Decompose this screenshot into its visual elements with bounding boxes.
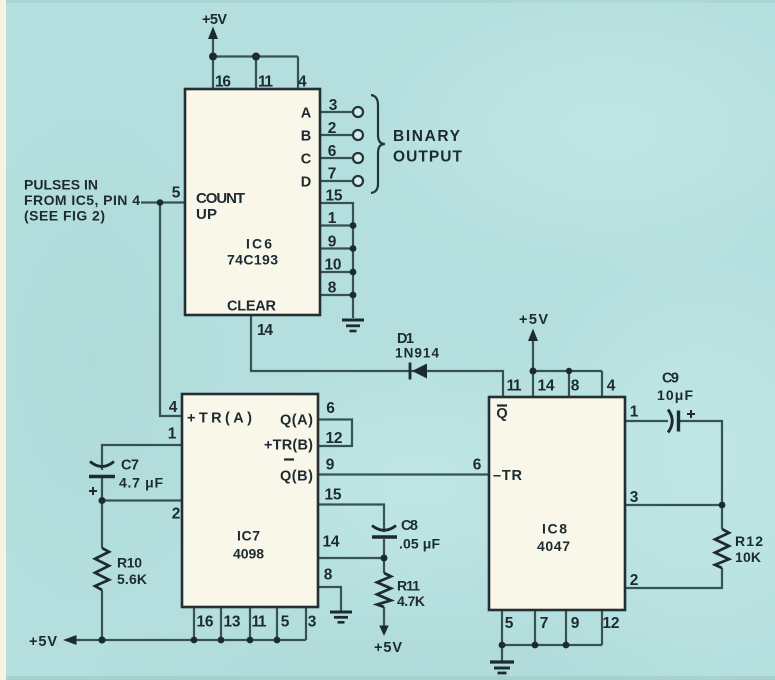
svg-text:C: C (301, 152, 312, 168)
svg-text:14: 14 (257, 322, 273, 339)
svg-text:3: 3 (630, 489, 639, 506)
svg-text:5: 5 (281, 614, 290, 631)
svg-text:16: 16 (215, 74, 231, 91)
junction dot R10 bottom rail (98, 636, 105, 643)
power arrow +5V top (208, 27, 218, 40)
junction dot IC8 pin8 top (566, 368, 572, 374)
power arrow +5V above IC8 (528, 329, 538, 342)
svg-text:1: 1 (328, 210, 337, 227)
svg-text:COUNT: COUNT (196, 190, 245, 207)
wire IC6 pin A to output circle (320, 111, 352, 113)
svg-text:8: 8 (571, 378, 580, 395)
svg-text:1: 1 (630, 404, 639, 421)
junction dot IC7 pin5 rail (274, 637, 281, 644)
svg-text:4: 4 (607, 378, 616, 395)
wire pin5 input (141, 201, 185, 203)
svg-text:4.7 μF: 4.7 μF (119, 475, 163, 491)
svg-text:R12: R12 (735, 533, 763, 549)
svg-text:11: 11 (507, 378, 522, 395)
IC6 74C193 box (185, 89, 320, 315)
svg-text:16: 16 (197, 614, 214, 631)
svg-text:FROM IC5, PIN 4: FROM IC5, PIN 4 (24, 192, 140, 208)
wire IC6 pin1 (320, 224, 353, 226)
svg-text:7: 7 (328, 166, 337, 183)
wire IC7 pin6 to pin12 loop (318, 420, 352, 447)
left page margin strip (0, 0, 6, 680)
svg-text:+5V: +5V (519, 312, 548, 328)
wire ground stem IC8 (501, 645, 503, 661)
svg-text:A: A (301, 106, 312, 122)
ground IC8 bottom (490, 662, 514, 673)
svg-text:14: 14 (323, 534, 340, 551)
binary output circle B (353, 130, 363, 140)
svg-text:IC8: IC8 (542, 521, 567, 537)
diode D1 1N914 (412, 364, 427, 379)
wire IC6 pin10 (320, 271, 353, 273)
svg-text:R10: R10 (117, 555, 142, 571)
junction dot input pin5 (157, 199, 164, 206)
junction dot IC6 pin10 (350, 269, 357, 276)
svg-text:2: 2 (172, 506, 181, 523)
junction dot C8 R11 pin14 (381, 555, 388, 562)
svg-text:6: 6 (326, 400, 335, 417)
wire IC6 pin D to output circle (320, 180, 352, 182)
svg-text:C7: C7 (121, 458, 139, 474)
junction dot IC6 pin1 (350, 222, 357, 229)
svg-text:Q: Q (496, 406, 507, 422)
junction dot IC6 pin8 (350, 292, 357, 299)
wire IC8 top rail pins 14,8,4 (533, 371, 602, 397)
svg-text:2: 2 (630, 572, 639, 589)
resistor R11 (377, 573, 391, 607)
junction dot IC8 pin7 rail (532, 642, 539, 649)
wire IC7 pin8 to ground (318, 587, 341, 611)
junction dot IC7 pin11 rail (247, 637, 254, 644)
svg-text:OUTPUT: OUTPUT (393, 149, 463, 166)
junction dot IC7 pin16 rail (191, 637, 198, 644)
svg-text:R11: R11 (397, 578, 420, 594)
svg-text:4047: 4047 (537, 538, 570, 554)
svg-text:4: 4 (169, 399, 178, 416)
svg-text:+5V: +5V (202, 12, 227, 28)
svg-text:D: D (301, 175, 311, 191)
svg-text:12: 12 (326, 430, 343, 447)
svg-text:(SEE FIG 2): (SEE FIG 2) (24, 208, 105, 224)
svg-text:74C193: 74C193 (227, 252, 278, 268)
wire input to IC7 pin4 (160, 203, 182, 417)
svg-text:5: 5 (172, 185, 181, 202)
svg-text:13: 13 (224, 614, 241, 631)
junction dot C7 pin2 (99, 497, 106, 504)
svg-text:12: 12 (603, 615, 620, 632)
svg-text:3: 3 (329, 97, 338, 114)
wire IC8 bottom pins 5,7,9,12 to ground rail (502, 611, 602, 645)
svg-text:10μF: 10μF (657, 387, 693, 403)
svg-text:1: 1 (168, 426, 177, 443)
svg-text:5.6K: 5.6K (117, 571, 147, 587)
svg-text:.05 μF: .05 μF (399, 536, 440, 552)
wire IC8 pin3 to R12 (625, 505, 722, 529)
svg-text:CLEAR: CLEAR (227, 299, 277, 315)
svg-text:+TR(B): +TR(B) (264, 438, 313, 454)
wire IC8 pin1 to C9 (625, 420, 668, 422)
svg-text:PULSES IN: PULSES IN (24, 177, 98, 193)
ground IC7 pin8 (330, 612, 352, 622)
svg-text:BINARY: BINARY (393, 128, 461, 145)
capacitor C9 (668, 410, 695, 433)
wire IC7 pin2 (102, 499, 182, 501)
power arrow +5V bottom left (63, 635, 77, 645)
capacitor C7 (89, 462, 115, 496)
brace binary output (371, 95, 385, 193)
wire +5V down to IC8 pin14 (532, 340, 534, 397)
svg-text:6: 6 (473, 457, 482, 474)
binary output circle A (353, 107, 363, 117)
wire IC6 pin B to output circle (320, 134, 352, 136)
svg-text:15: 15 (326, 188, 343, 205)
junction dot IC6 pin9 (350, 245, 357, 252)
resistor R10 (95, 548, 109, 590)
svg-text:Q(A): Q(A) (280, 413, 313, 429)
wire +5V bottom rail (74, 639, 306, 641)
junction dot IC8 pin14 top (530, 368, 537, 375)
svg-text:9: 9 (326, 457, 335, 474)
ground below IC6 pin bus (342, 320, 364, 331)
svg-text:9: 9 (328, 234, 337, 251)
junction dot top rail pin16 (209, 53, 217, 61)
wire IC6 pin8 (320, 294, 353, 296)
wire IC7 pin15 to C8 (318, 505, 384, 533)
svg-text:IC7: IC7 (237, 528, 260, 544)
svg-text:10K: 10K (735, 549, 761, 565)
svg-text:+5V: +5V (29, 634, 57, 650)
svg-text:6: 6 (328, 143, 337, 160)
wire R11 to +5V arrow (383, 607, 385, 628)
wire IC7 pin9 to IC8 pin6 (318, 473, 489, 475)
wire IC7 pin1 to C7 (102, 445, 182, 470)
wire +5V top rail to pins 16,11,4 (213, 38, 298, 89)
IC7 4098 box (182, 394, 318, 607)
resistor R12 (715, 529, 729, 568)
capacitor C8 (372, 526, 397, 538)
svg-text:C9: C9 (662, 371, 679, 387)
svg-text:4098: 4098 (233, 546, 264, 562)
svg-text:3: 3 (308, 614, 317, 631)
svg-text:8: 8 (328, 280, 337, 297)
svg-text:15: 15 (325, 487, 342, 504)
power arrow +5V below R11 (379, 626, 388, 637)
wire IC6 pin14 clear to diode D1 to IC8 pin11 (251, 315, 503, 397)
wire IC7 pin14 to C8/R11 junction (318, 539, 384, 573)
wire IC6 pin15 to ground bus (320, 203, 353, 318)
svg-text:+5V: +5V (374, 640, 402, 656)
svg-text:5: 5 (505, 615, 514, 632)
wire R12 to IC8 pin2 (625, 568, 722, 588)
binary output circle C (353, 153, 363, 163)
junction dot IC7 pin13 rail (218, 637, 225, 644)
svg-text:4: 4 (298, 74, 307, 91)
svg-text:7: 7 (540, 615, 549, 632)
svg-text:UP: UP (196, 206, 217, 223)
junction dot IC8 pin5 rail (499, 642, 506, 649)
junction dot top rail pin11 (252, 53, 260, 61)
svg-text:9: 9 (571, 615, 580, 632)
svg-text:4.7K: 4.7K (397, 593, 425, 609)
wire C7 to pin2 junction (101, 477, 103, 548)
svg-text:Q(B): Q(B) (280, 469, 313, 485)
svg-text:2: 2 (328, 120, 337, 137)
junction dot R12 pin3 (719, 502, 726, 509)
wire R10 to +5V rail (101, 590, 103, 640)
wire IC7 bottom pins 16,13,11,5,3 (194, 607, 306, 640)
svg-text:–TR: –TR (493, 468, 523, 484)
wire IC6 pin9 (320, 247, 353, 249)
svg-text:10: 10 (325, 257, 342, 274)
IC8 4047 box (489, 397, 625, 610)
svg-text:B: B (301, 129, 311, 145)
svg-text:11: 11 (258, 74, 273, 91)
junction dot IC8 pin9 rail (563, 642, 570, 649)
scan mottle (decorative) (350, 0, 775, 280)
wire IC6 pin C to output circle (320, 157, 352, 159)
wire C9 to R12 branch (679, 421, 722, 505)
svg-text:C8: C8 (401, 518, 418, 534)
svg-text:8: 8 (324, 567, 333, 584)
svg-text:14: 14 (538, 378, 555, 395)
binary output circle D (353, 176, 363, 186)
svg-text:1N914: 1N914 (395, 346, 439, 361)
svg-text:11: 11 (252, 614, 267, 631)
